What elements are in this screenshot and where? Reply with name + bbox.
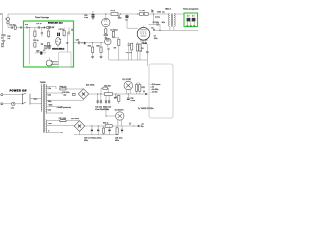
node dots input wire — [29, 27, 30, 28]
svg-text:6,3в: 6,3в — [48, 88, 51, 90]
connector J1 input jack — [5, 17, 9, 23]
wire tap bias fuse — [46, 120, 59, 122]
text R31 label — [103, 107, 109, 111]
resistor R27 — [114, 94, 120, 104]
text left cluster labels — [44, 46, 51, 50]
resistor R24 small box — [73, 93, 76, 95]
svg-text:кТВЗ: кТВЗ — [157, 12, 161, 14]
transformer T2 power — [41, 84, 47, 133]
svg-text:ТВЗ1-9: ТВЗ1-9 — [165, 9, 171, 11]
capacitor C1 coupling — [125, 14, 137, 28]
svg-text:C6: C6 — [151, 27, 153, 29]
svg-text:100н: 100н — [118, 18, 122, 20]
capacitor C36 — [91, 126, 93, 135]
node junction VL2 — [105, 115, 106, 116]
svg-text:C18 1н: C18 1н — [36, 23, 42, 25]
svg-text:BD2 400в: BD2 400в — [71, 118, 79, 120]
svg-text:6П14П-ЕВx2: 6П14П-ЕВx2 — [52, 48, 65, 51]
svg-text:С3: С3 — [125, 20, 127, 22]
wire stub y37.8 — [112, 38, 119, 39]
wire switch to primary 1 — [30, 98, 41, 100]
ground V2 cathode — [104, 38, 107, 39]
capacitor C7 on cathode drop — [140, 48, 148, 53]
svg-text:R22: R22 — [88, 46, 91, 48]
wire top B+ rail — [8, 13, 169, 15]
ground terminal 2 — [190, 24, 192, 27]
wire cathode bus — [109, 59, 147, 61]
ground C24 — [91, 17, 94, 19]
svg-text:100мк: 100мк — [130, 100, 135, 102]
resistor R19 — [34, 28, 36, 40]
resistor R6b — [112, 29, 114, 38]
tube V1a triode — [56, 36, 62, 47]
resistor R1a — [47, 29, 49, 39]
node info gray box — [149, 64, 173, 118]
node rail junction dots — [105, 13, 106, 14]
svg-text:Плата выходников: Плата выходников — [183, 9, 199, 11]
resistor R17 — [14, 26, 16, 30]
capacitor C8 — [107, 48, 109, 60]
wire tap 6.3V heater — [46, 87, 56, 90]
wire terminal stubs — [187, 21, 194, 25]
svg-text:громк.: громк. — [155, 17, 160, 19]
capacitor C15 input filter — [1, 35, 5, 41]
capacitor C21 — [41, 28, 43, 37]
wire inner left drop — [28, 28, 30, 65]
capacitor C33 — [105, 95, 107, 104]
wire lamp to switch — [15, 103, 22, 105]
resistor R6 cathode — [105, 29, 107, 35]
ground R23 — [100, 57, 103, 59]
resistor R26 series — [104, 93, 112, 96]
capacitor C5 — [157, 23, 160, 30]
resistor R28 — [136, 83, 138, 94]
capacitor C24 rail filter — [84, 12, 94, 20]
resistor R8 — [144, 13, 148, 16]
text Uc label — [141, 124, 144, 128]
svg-text:60в: 60в — [141, 126, 144, 128]
board outline green box 2 — [184, 13, 198, 27]
resistor R32 — [116, 126, 118, 135]
node rail left end — [0, 13, 3, 15]
resistor R29 — [137, 83, 145, 94]
resistor R13 — [126, 43, 133, 60]
ground terminal 3 — [193, 24, 195, 27]
capacitor rail tick — [152, 9, 153, 12]
wire shield chassis line — [1, 13, 3, 34]
capacitor C2a second row — [41, 44, 43, 45]
connector mains pin 1 — [1, 94, 3, 96]
connector terminal block 1 — [187, 18, 191, 22]
resistor R20 — [47, 27, 50, 29]
svg-text:R25 100: R25 100 — [104, 86, 110, 88]
text input labels — [1, 36, 11, 48]
text speaker labels — [155, 17, 166, 24]
svg-text:R23: R23 — [96, 46, 99, 48]
node junctions lower — [91, 125, 92, 126]
node tap junction dots — [62, 86, 63, 87]
wire OT primary bottom — [169, 26, 171, 30]
fuse FU2 — [60, 120, 80, 122]
capacitor Cout2 — [193, 15, 195, 17]
wire dc out lower — [85, 125, 105, 127]
capacitor C20 coupling — [76, 40, 80, 45]
resistor R30 series lower — [103, 123, 138, 128]
resistor R3a second row — [47, 43, 49, 48]
svg-text:450в: 450в — [84, 140, 88, 142]
svg-text:C30 100н: C30 100н — [62, 92, 69, 94]
wire tap aux2 — [46, 112, 62, 114]
wire mains bottom — [3, 103, 12, 105]
capacitor C18 — [36, 23, 42, 29]
resistor R5 plate — [111, 13, 118, 16]
svg-text:100н: 100н — [154, 38, 158, 40]
ground R22 — [91, 57, 94, 59]
resistor R23 — [96, 43, 102, 57]
wire input chain inside board — [24, 27, 53, 29]
svg-text:VL2 6С19П: VL2 6С19П — [115, 109, 125, 111]
text legend lines — [151, 84, 161, 94]
svg-text:Тр. ТАН28 127/220в: Тр. ТАН28 127/220в — [138, 107, 154, 110]
capacitor C17 — [21, 26, 22, 28]
ground terminal 1 — [186, 24, 188, 27]
capacitor small marks above lower rail — [130, 123, 131, 125]
svg-text:C20: C20 — [76, 40, 79, 42]
wire jack to input chain — [8, 24, 24, 28]
svg-text:R21 1М: R21 1М — [48, 27, 55, 29]
svg-text:6Н2П-ЕВ 2шт: 6Н2П-ЕВ 2шт — [48, 23, 63, 25]
capacitor C18a small — [27, 27, 28, 29]
text C1 label — [118, 15, 128, 21]
capacitor C32 — [100, 94, 102, 104]
svg-text:~100в: ~100в — [48, 104, 53, 106]
svg-text:6,3в: 6,3в — [48, 95, 51, 97]
resistor R22 — [88, 43, 94, 57]
node junction dots dc rail — [97, 93, 98, 94]
svg-text:47мк: 47мк — [84, 17, 88, 19]
capacitor C38 — [108, 126, 110, 135]
svg-text:2н2: 2н2 — [1, 46, 4, 48]
svg-text:ТАН28: ТАН28 — [40, 81, 46, 84]
node junction fb — [159, 30, 160, 31]
text C33 C34 labels — [105, 107, 112, 111]
resistor R2a second row — [34, 43, 36, 48]
capacitor marks before arrow — [144, 90, 145, 92]
wire board output — [74, 42, 104, 44]
svg-text:VL1 6С19П: VL1 6С19П — [122, 79, 132, 81]
capacitor C19 dark electrolytic — [58, 33, 60, 36]
svg-text:– Uс 60в: – Uс 60в — [151, 92, 158, 94]
capacitor C34 — [108, 95, 110, 104]
capacitor C9 — [128, 42, 130, 60]
capacitor C30 — [62, 92, 69, 96]
resistor R25 bypass loop — [101, 86, 111, 95]
wire VL2 left — [106, 115, 116, 117]
wire R31 drop — [105, 111, 107, 117]
svg-text:сеть: сеть — [11, 107, 14, 109]
transformer OT output — [169, 13, 176, 26]
node arrow Uc — [138, 125, 141, 127]
wire OT secondary bottom — [173, 26, 175, 30]
resistor R4a right col — [63, 28, 65, 38]
capacitor C6 — [151, 27, 155, 30]
capacitor C39 — [121, 126, 123, 134]
wire jack to rail — [7, 14, 9, 17]
resistor R11 — [139, 44, 141, 60]
capacitor Cout1 — [188, 15, 190, 17]
svg-text:10к: 10к — [7, 38, 10, 40]
capacitor C35a — [115, 94, 117, 97]
capacitor C22 blob — [44, 27, 46, 29]
wire feedback bottom — [154, 29, 198, 31]
tube VL2 regulator — [115, 109, 125, 126]
wire switch to primary 2 — [30, 103, 41, 105]
resistor R10 — [136, 42, 138, 60]
node tube V3 pins — [141, 39, 147, 43]
capacitor C19b marks — [66, 42, 68, 43]
wire tap bias 2 — [46, 124, 74, 126]
svg-text:R5 1к: R5 1к — [111, 10, 116, 12]
wire cathode drop V3 — [146, 44, 148, 66]
tube V3 output pentode — [137, 26, 150, 40]
svg-text:ГУ-50: ГУ-50 — [142, 43, 147, 45]
resistor R7 — [140, 13, 144, 16]
connector mains pin 2 — [1, 103, 3, 105]
text tap labels — [48, 88, 53, 133]
svg-text:~60в: ~60в — [48, 123, 52, 125]
svg-text:1н: 1н — [1, 37, 3, 39]
capacitor C23 blob — [84, 42, 86, 44]
node arrow Ua — [145, 93, 148, 95]
capacitor C16 — [9, 24, 15, 28]
tube V1b triode — [46, 58, 58, 67]
svg-text:6,3в: 6,3в — [48, 110, 51, 112]
wire screen node — [149, 14, 159, 25]
capacitor C4a right col — [68, 28, 70, 36]
node junction out — [81, 42, 82, 43]
wire B+ dc rail — [89, 93, 146, 95]
svg-text:POWER ON: POWER ON — [10, 89, 27, 92]
svg-text:BD1 1000в: BD1 1000в — [86, 84, 95, 86]
wire tap aux1 — [46, 106, 62, 108]
capacitor C35 — [127, 94, 135, 102]
capacitor C37 — [97, 126, 99, 135]
tube V2b small triode — [105, 38, 112, 47]
svg-text:Плата Серенада: Плата Серенада — [35, 17, 49, 19]
resistor R31v — [102, 126, 104, 135]
wire ground bus lower — [74, 131, 118, 135]
text near V3 right — [154, 36, 158, 40]
ground input — [2, 41, 6, 43]
diode bridge BD1 — [78, 89, 88, 99]
svg-text:450в: 450в — [115, 140, 119, 142]
capacitor C31 — [97, 94, 99, 104]
svg-text:R30 1к: R30 1к — [103, 123, 109, 125]
text lower cap labels — [84, 137, 123, 141]
svg-text:100в: 100в — [48, 101, 52, 103]
diode bridge BD2 — [74, 121, 85, 132]
wire tap heater 2 — [46, 92, 62, 94]
svg-text:0: 0 — [48, 131, 49, 133]
tube VL1 regulator — [122, 79, 132, 94]
wire OT secondary top — [174, 13, 184, 15]
svg-text:R18: R18 — [25, 24, 28, 26]
svg-text:R28: R28 — [142, 87, 145, 89]
svg-text:к плате усилителя: к плате усилителя — [57, 107, 71, 109]
board outline green box 1 — [24, 21, 74, 67]
wire tap anode lower — [46, 99, 83, 100]
svg-text:R19 1к: R19 1к — [33, 40, 39, 42]
resistor R9 — [114, 39, 120, 60]
wire right column drop — [66, 32, 68, 52]
capacitor inner C cluster — [35, 49, 46, 54]
lamp neon indicator — [11, 102, 15, 109]
connector terminal block 2 — [192, 18, 196, 22]
switch S1 mains — [22, 93, 30, 104]
text C31 C32 labels — [95, 107, 103, 111]
wire tap bottom — [46, 132, 62, 134]
node inner gray sub-board — [59, 52, 72, 67]
fuse FU1 — [60, 88, 84, 90]
capacitor edge marks — [71, 29, 72, 31]
capacitor C2 cathode bypass — [104, 30, 118, 38]
tube V2 driver triode — [102, 14, 110, 29]
svg-text:R7 10к: R7 10к — [139, 10, 145, 12]
svg-text:C9 R13: C9 R13 — [126, 52, 132, 54]
svg-text:R9: R9 — [114, 48, 116, 50]
wire mains top — [3, 94, 23, 96]
